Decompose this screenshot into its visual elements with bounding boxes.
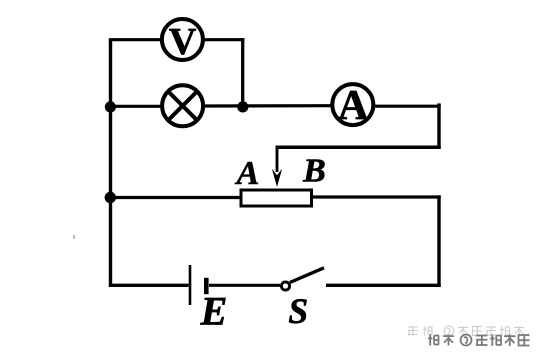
watermark row 1 (zhihu, light gray) [408, 326, 524, 336]
switch S blade [290, 268, 324, 283]
wire bottom left to battery [109, 284, 189, 287]
ammeter A1 circle [332, 84, 373, 125]
lamp L1 cross [168, 91, 197, 120]
wire right vertical lower [437, 195, 440, 286]
wire battery to switch [209, 284, 280, 287]
wire right vertical of voltmeter branch [241, 38, 244, 106]
junction node left-rheostat [105, 192, 116, 203]
svg-text:V: V [169, 21, 197, 63]
battery E short plate [204, 278, 209, 294]
svg-text:A: A [235, 155, 260, 192]
svg-text:E: E [200, 289, 228, 334]
switch S pivot circle [281, 282, 289, 290]
wire junction to lamp [111, 105, 162, 108]
wire rheostat to right [312, 195, 441, 198]
wire left vertical [109, 40, 112, 286]
wire voltmeter to right corner [204, 38, 244, 41]
junction node left-lamp [105, 101, 116, 112]
wire ammeter to right [374, 105, 441, 108]
junction node right-lamp [237, 101, 248, 112]
svg-text:A: A [338, 82, 369, 129]
wire top horizontal to voltmeter [109, 38, 161, 41]
lamp L1 circle [162, 85, 203, 126]
wire slider feed horizontal [277, 145, 441, 149]
wire junction to rheostat [111, 196, 243, 199]
stray speck [73, 235, 75, 239]
svg-text:B: B [302, 153, 326, 190]
watermark row 2 (toutiao, darker gray) [428, 335, 530, 347]
battery E long plate [189, 265, 192, 305]
wire bottom right to switch [326, 284, 441, 287]
wire lamp to ammeter [204, 104, 332, 108]
voltmeter V1 circle [162, 19, 203, 60]
rheostat R1 body [241, 190, 312, 206]
svg-text:S: S [288, 291, 308, 331]
rheostat slider arrow [276, 146, 279, 173]
wire right vertical upper [437, 103, 440, 148]
